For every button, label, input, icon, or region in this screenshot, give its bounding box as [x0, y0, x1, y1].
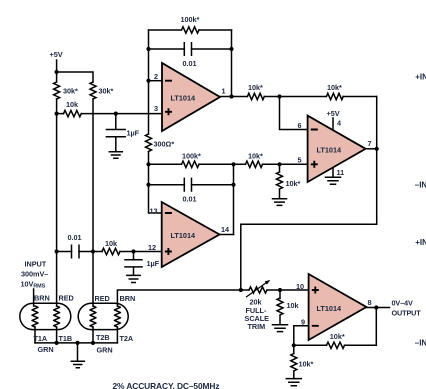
- svg-text:0V–4V: 0V–4V: [392, 298, 413, 307]
- svg-text:+IN: +IN: [415, 238, 426, 247]
- svg-text:3: 3: [154, 104, 158, 113]
- resistor R 10k* A4 to gnd: [291, 345, 297, 378]
- wire pin3 input line: [57, 113, 162, 115]
- junction output node: [374, 305, 378, 309]
- svg-text:LT1014: LT1014: [171, 93, 197, 102]
- svg-text:100k*: 100k*: [182, 152, 201, 161]
- svg-text:30k*: 30k*: [99, 87, 114, 96]
- svg-text:11: 11: [337, 168, 345, 177]
- capacitor C 0.01 A1: [184, 43, 191, 56]
- wire pot to pin 10: [241, 289, 309, 291]
- wire A4 output: [366, 307, 389, 309]
- svg-text:2: 2: [154, 72, 158, 81]
- heater T2A element: [114, 306, 120, 327]
- ground pin10 divider: [273, 325, 288, 332]
- wire input stub: [33, 289, 35, 306]
- heater T1A element: [32, 306, 38, 327]
- op-amp U1c LT1014: [162, 202, 220, 267]
- junction pin 1 node: [229, 94, 233, 98]
- junction pin 2 node: [146, 79, 150, 83]
- svg-text:T2B: T2B: [96, 333, 110, 342]
- wire pin 5 line: [234, 163, 308, 165]
- op-amp U1a LT1014: [162, 63, 220, 131]
- junction pin 9 node: [292, 343, 296, 347]
- sensor T2 oval: [78, 303, 128, 329]
- junction A3 fb left bottom: [146, 183, 150, 187]
- svg-text:T2A: T2A: [120, 334, 134, 343]
- wire pin 1 output: [220, 96, 377, 98]
- wire A3 right rail: [233, 164, 235, 234]
- wire 0.01 A1 line: [149, 48, 232, 50]
- svg-text:10k: 10k: [66, 100, 79, 109]
- svg-text:10VRMS: 10VRMS: [21, 280, 46, 290]
- wire 100k* A1 top: [149, 29, 232, 31]
- resistor R 10k* to gnd A2: [277, 164, 283, 199]
- ground sensors: [71, 361, 84, 368]
- wire pin 9 branch: [294, 326, 309, 346]
- wire A1 feedback left rail: [148, 30, 150, 81]
- wire pin 2 stub: [149, 80, 163, 82]
- svg-text:–IN: –IN: [415, 338, 426, 347]
- wire sensor bottoms: [35, 327, 117, 343]
- wire pin 12 line: [57, 251, 162, 253]
- svg-text:10k: 10k: [287, 301, 300, 310]
- svg-text:BRN: BRN: [120, 294, 136, 303]
- svg-text:300mV–: 300mV–: [21, 270, 48, 279]
- svg-text:T1A: T1A: [34, 334, 48, 343]
- wire rail T2B/RED column: [92, 99, 94, 306]
- svg-text:4: 4: [337, 119, 342, 128]
- resistor R 10k* series2: [326, 93, 343, 99]
- ground below 1uF second: [127, 275, 140, 282]
- junction heater drive node: [239, 288, 243, 292]
- wire A2 output rail down: [376, 97, 378, 225]
- ground below 1uF first: [109, 152, 122, 159]
- junction A1 fb right: [229, 47, 233, 51]
- svg-text:10k*: 10k*: [248, 83, 263, 92]
- junction T1B bottom: [55, 341, 59, 345]
- svg-text:10: 10: [296, 282, 304, 291]
- svg-text:TRIM: TRIM: [248, 322, 266, 331]
- wire 0.01 A3 line: [149, 184, 234, 186]
- junction sensor gnd tee: [75, 341, 79, 345]
- junction 1uF2 node: [131, 249, 135, 253]
- svg-text:1µF: 1µF: [147, 259, 160, 268]
- svg-text:–IN: –IN: [415, 181, 426, 190]
- svg-text:INPUT: INPUT: [25, 260, 47, 269]
- resistor R 30k* left: [54, 82, 60, 99]
- svg-text:2% ACCURACY, DC–50MHz: 2% ACCURACY, DC–50MHz: [113, 381, 220, 389]
- svg-text:0.01: 0.01: [68, 233, 82, 242]
- resistor R 10k pin10 to gnd: [277, 290, 283, 325]
- wire T2A heater drive line: [117, 290, 240, 306]
- junction A3 fb right bottom: [231, 183, 235, 187]
- svg-text:10k*: 10k*: [330, 332, 345, 341]
- ground A2 +input divider: [273, 199, 287, 206]
- wire A1 output right rail: [231, 30, 233, 97]
- svg-text:GRN: GRN: [97, 346, 113, 355]
- svg-text:10k*: 10k*: [299, 360, 314, 369]
- junction pin 10 node: [278, 288, 282, 292]
- junction input coupling left: [55, 249, 59, 253]
- svg-text:+5V: +5V: [327, 109, 340, 118]
- svg-text:LT1014: LT1014: [317, 145, 343, 154]
- wire A2 +5V stub pin 4: [332, 118, 334, 131]
- junction pin 6 node: [277, 94, 281, 98]
- resistor R 100k* A3: [182, 161, 200, 167]
- resistor R 10k* pin5: [246, 161, 263, 167]
- resistor R 10k input: [64, 110, 82, 116]
- svg-text:9: 9: [301, 318, 305, 327]
- wire pin 14 output: [220, 234, 234, 236]
- svg-text:14: 14: [221, 225, 230, 234]
- junction T2B bottom: [91, 341, 95, 345]
- wire sensor common bottom: [35, 342, 117, 344]
- svg-text:LT1014: LT1014: [317, 304, 343, 313]
- potentiometer arrow: [247, 283, 266, 297]
- resistor R 10k pin12: [102, 248, 120, 254]
- junction A1 fb left: [146, 47, 150, 51]
- ground A4 divider: [286, 379, 301, 386]
- junction +5V tee: [55, 70, 59, 74]
- wire 100k* A3 line: [149, 163, 234, 165]
- capacitor C 0.01 A3: [184, 178, 191, 191]
- junction 10k left: [55, 112, 59, 116]
- svg-text:1µF: 1µF: [127, 129, 140, 138]
- potentiometer R 20k full-scale trim: [249, 287, 267, 293]
- svg-text:RED: RED: [95, 294, 110, 303]
- heater T1B element: [54, 306, 60, 327]
- svg-text:+5V: +5V: [50, 50, 63, 59]
- wire A4 feedback rail: [294, 308, 377, 346]
- svg-text:6: 6: [298, 121, 302, 130]
- +5V supply stub: [57, 60, 93, 82]
- junction pin 5 node: [277, 162, 281, 166]
- svg-text:12: 12: [148, 243, 156, 252]
- svg-text:100k*: 100k*: [181, 15, 200, 24]
- resistor R 30k* right: [90, 82, 96, 99]
- svg-text:GRN: GRN: [38, 345, 54, 354]
- junction pin 7 node: [375, 147, 379, 151]
- capacitor C 0.01 input coupling: [72, 245, 80, 258]
- svg-text:30k*: 30k*: [63, 87, 78, 96]
- svg-text:10k*: 10k*: [327, 83, 342, 92]
- resistor R 10k* feedback A4: [327, 342, 345, 348]
- heater T2B element: [90, 306, 96, 327]
- wire cross over to pot column: [241, 224, 377, 290]
- svg-text:1: 1: [222, 87, 226, 96]
- junction A3 fb left top: [146, 162, 150, 166]
- svg-text:0.01: 0.01: [183, 59, 197, 68]
- svg-text:5: 5: [298, 156, 302, 165]
- svg-text:OUTPUT: OUTPUT: [392, 308, 422, 317]
- resistor R 10k* series1: [247, 93, 264, 99]
- capacitor C 1uF first: [106, 114, 125, 152]
- junction A3 fb right top: [231, 162, 235, 166]
- svg-text:10k: 10k: [105, 239, 118, 248]
- svg-text:10k*: 10k*: [286, 179, 301, 188]
- wire rail T1B/RED column: [56, 99, 58, 306]
- wire pin 7 output: [366, 148, 377, 150]
- sensor T1 oval: [20, 303, 71, 329]
- svg-text:300Ω*: 300Ω*: [154, 140, 175, 149]
- resistor R 100k* A1: [182, 27, 200, 33]
- svg-text:+IN: +IN: [415, 72, 426, 81]
- wire 300ohm rail: [148, 81, 150, 165]
- svg-text:8: 8: [368, 298, 372, 307]
- junction 1uF node: [114, 112, 118, 116]
- wire gnd stem sensors: [77, 343, 79, 361]
- junction input coupling right: [91, 249, 95, 253]
- op-amp U1d LT1014: [309, 274, 367, 340]
- svg-text:LT1014: LT1014: [171, 231, 197, 240]
- svg-text:RED: RED: [59, 294, 74, 303]
- ground A2 pin 11: [326, 177, 341, 184]
- wire A3 left rail to pin 13: [149, 164, 162, 213]
- svg-text:10k*: 10k*: [248, 152, 263, 161]
- svg-text:T1B: T1B: [59, 334, 73, 343]
- capacitor C 1uF second: [125, 252, 142, 276]
- svg-text:BRN: BRN: [34, 294, 50, 303]
- wire A2 gnd stem pin 11: [332, 167, 334, 178]
- svg-text:0.01: 0.01: [183, 195, 197, 204]
- svg-text:13: 13: [150, 207, 158, 216]
- resistor R 300ohm*: [146, 134, 152, 152]
- op-amp U1b LT1014: [308, 116, 366, 182]
- wire pin 6 branch: [280, 97, 308, 130]
- svg-text:7: 7: [368, 139, 372, 148]
